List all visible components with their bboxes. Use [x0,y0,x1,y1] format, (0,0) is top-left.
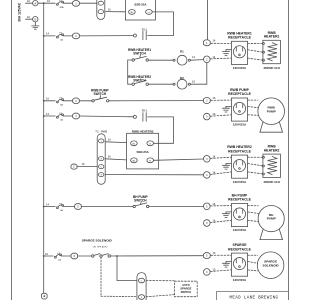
pin 6 [71,253,78,259]
wire fuse F1 to pin 1 [63,2,72,4]
node bus bottom terminal [41,293,47,299]
ground at J4 BH PUMP RECEPTACLE [222,212,231,218]
fuse F2 2A [57,33,64,42]
wire pin 6 to switch S5 [78,255,92,257]
terminal G [33,17,38,22]
wire node 6c to sparge receptacle (dashed) [210,270,231,272]
svg-text:SPARGE SOLENOID: SPARGE SOLENOID [82,239,113,243]
wire node 2 to heater1 receptacle (dashed) [210,57,231,60]
pin 1 [73,1,80,7]
ground at J3 RWB HEATER2 RECEPTACLE [222,164,231,170]
svg-text:120V/15A: 120V/15A [233,66,247,70]
ground symbol below terminal G [32,22,39,29]
wire switch S1 to relay coil R1 [148,59,173,61]
svg-text:120V/15A: 120V/15A [233,228,247,232]
wire relay R2 up to node 2, gauge 16 [191,63,207,85]
svg-text:SOLENOID: SOLENOID [263,263,280,267]
relay coil R2 [173,76,190,89]
wire bus to fuse F2, gauge 14 [44,32,56,36]
svg-text:A: A [34,1,36,5]
wire pin 5 to switch S4 [81,206,133,208]
source label 30A 125VAC [17,2,21,22]
svg-text:RECEPTACLE: RECEPTACLE [228,247,251,251]
wire node 5c to sparge receptacle (dashed) [211,254,232,256]
wire source to terminal A, gauge 10 [26,0,33,3]
wire SSR U2 T1 to node 3c [154,159,204,160]
wire bh receptacle to motor (dashed x3) [248,206,259,222]
fuse F4 2A [57,113,64,122]
pin 5 [75,204,82,210]
wire branch down to terminal strip TB2 pin 1 [117,256,137,281]
fuse F5 5A [57,203,64,212]
relay coil R1 [173,50,190,66]
pin C [71,164,77,169]
junction dots on bus and branches [43,2,118,257]
wire TC-RWB pin 8 to SSR U2 M2, gauge 16 [105,154,126,160]
wire pump receptacle to motor (dashed x3) [248,100,258,115]
title block [217,292,289,300]
svg-text:HEATER1: HEATER1 [264,35,280,39]
pin 3 [73,98,80,104]
svg-text:RECEPTACLE: RECEPTACLE [228,149,251,153]
pin 2 [73,33,80,39]
svg-text:R1: R1 [180,50,184,54]
wire pin 3 to switch S3 [79,100,92,102]
svg-text:AUTO: AUTO [102,245,108,248]
wire row1 from terminal A to fuse F1, gauge 16 [38,0,55,3]
wire source to terminal G, gauge 10 [26,15,33,19]
terminal A [33,1,38,6]
receptacle J4 BH PUMP RECEPTACLE [228,194,251,233]
svg-text:PUMP: PUMP [267,217,276,221]
svg-text:120V/15A: 120V/15A [233,123,247,127]
receptacle J2 RWB PUMP RECEPTACLE [228,88,251,127]
svg-text:30A: 30A [60,6,64,9]
receptacle J5 SPARGE RECEPTACLE [228,243,251,282]
border frame left line [11,0,13,300]
wire pin C to TC-RWB, gauge 16 [77,162,97,166]
node 3 [204,154,216,162]
wire node 3c to heater2 receptacle (dashed) [210,157,231,158]
wire fuse F3 to pin 3 [63,100,72,102]
resistor RWB HEATER1 [262,31,280,70]
terminal strip TB2 [137,273,146,300]
wire node 6b to bh receptacle (dashed) [210,220,231,222]
relay U2 SSR-25A [127,129,159,169]
svg-text:TC - RWB: TC - RWB [95,129,107,133]
svg-text:SWITCH: SWITCH [94,92,107,96]
wire switch S5 to node 5c [110,255,203,257]
svg-text:C: C [73,166,75,169]
node 5 [204,202,216,210]
relay U1 SSR-25A [125,0,155,20]
wire fuse F5 to pin 5 [63,206,74,208]
wire node 1 to heater1 receptacle (dashed) [211,42,232,44]
svg-text:SWITCH: SWITCH [134,199,147,203]
wire contact R1-1 to pin 2 [79,35,133,37]
node 4 [204,171,216,179]
motor M1 RWB PUMP [258,98,285,132]
switch S3 RWB PUMP SWITCH [91,89,110,103]
wire pin 2 to fuse F2 [63,35,72,37]
wire TB2 pin 2 to auto sparge switch (dashed) [146,295,174,297]
wire bus to fuse F4, gauge 14 [44,112,56,116]
node 6 [204,219,216,227]
wire pin 1 to terminal strip TB1 [79,2,96,4]
svg-text:125VAC: 125VAC [17,2,21,15]
switch S6 AUTO SPARGE SWITCH (remote, dashed box) [175,281,198,297]
svg-text:4500W ULO: 4500W ULO [263,180,280,184]
switch S2 RWB HEATER2 SWITCH [128,75,151,85]
ground at J5 SPARGE RECEPTACLE [222,262,231,268]
svg-text:RECEPTACLE: RECEPTACLE [228,36,251,40]
wire TB2 pin 1 to auto sparge switch (dashed) [146,280,174,282]
wire from SSR U1 output into node 1 [206,0,208,40]
svg-text:120V/15A: 120V/15A [233,180,247,184]
svg-text:AUTO: AUTO [182,283,190,287]
node 1 [203,38,215,45]
node 6 [204,268,216,276]
switch S5 sparge solenoid selector ON OFF AUTO [82,239,113,258]
svg-text:RWB HEATER2: RWB HEATER2 [132,129,154,133]
terminal strip TB1 [97,0,105,20]
svg-text:PUMP: PUMP [267,109,276,113]
wire relay R1 to node 2, gauge 14 [191,55,204,60]
node 2 [203,96,215,103]
border frame right line [288,0,290,300]
node 2 [204,55,216,63]
receptacle J1 RWB HEATER1 RECEPTACLE [227,31,252,70]
svg-text:RECEPTACLE: RECEPTACLE [228,198,251,202]
svg-text:SWITCH: SWITCH [181,290,192,294]
wire node 4b to heater2 receptacle (dashed) [210,172,231,175]
ground at J2 RWB PUMP RECEPTACLE [222,106,231,112]
contact R2-1 [133,109,147,122]
switch S4 BH PUMP SWITCH [133,195,149,208]
svg-text:SSR-25A: SSR-25A [136,150,149,154]
motor K1 SPARGE SOLENOID [257,252,284,279]
wire fuse F4 to pin 4 [63,115,72,117]
fuse F3 5A [57,98,64,107]
wire node 2b to pump receptacle (dashed) [211,99,232,101]
wire node 5b to bh receptacle (dashed) [210,205,231,207]
svg-text:R1-1: R1-1 [142,27,148,31]
wire heater2 receptacle to heater2 (dashed x3) [248,157,263,174]
wire joining switch S1 and S2 left posts [128,60,132,84]
svg-text:MEAD LANE BREWING: MEAD LANE BREWING [230,296,279,300]
fuse F6 2A [55,253,62,262]
wire node 3b to pump receptacle (dashed) [210,115,231,116]
ground at J1 RWB HEATER1 RECEPTACLE [222,50,231,56]
pin 4 [73,113,80,119]
wire switch S2 to relay coil R2 [148,83,173,85]
switch S1 RWB HEATER1 SWITCH [128,48,151,61]
receptacle J3 RWB HEATER2 RECEPTACLE [227,145,252,184]
wire switch S3 to node 2b [109,100,203,102]
wire hot bus vertical [43,3,45,293]
wire pin 4 to contact R2-1 [79,115,133,118]
wire TC-RWB pin 9 to node 4b [105,174,203,176]
wire TB1 to SSR U1 pin M2, gauge 16 [105,7,125,11]
svg-text:R2-1: R2-1 [142,109,148,113]
svg-text:HEATER2: HEATER2 [264,148,280,152]
svg-text:4500W ULO: 4500W ULO [263,66,280,70]
terminal strip TC-RWB [95,129,107,184]
svg-text:SSR-25A: SSR-25A [134,2,147,6]
wire sparge receptacle to solenoid (dashed x3) [248,255,258,271]
wire OFF position linkage (dashed) to TB2 pin 2 [101,257,137,296]
fuse F1 30A [57,0,64,9]
resistor RWB HEATER2 [262,145,280,184]
motor M2 BH PUMP [258,206,284,240]
svg-text:RECEPTACLE: RECEPTACLE [228,92,251,96]
wire heater1 receptacle to heater1 (dashed x3) [248,43,263,60]
wire bus to fuse F6, gauge 16 [44,252,54,256]
svg-text:120V/15A: 120V/15A [233,278,247,282]
node 5 [203,251,215,258]
wire fuse F6 to pin 6 [61,255,71,257]
wire switch S4 to node 5b [149,205,203,207]
wire SSR U1 L1 output down to contact R1-1 [148,12,174,36]
node 3 [204,112,216,120]
wire TC-RWB pin 7 to SSR U2 M1, gauge 16 [105,138,126,143]
wire bus to fuse F3, gauge 16 [44,97,56,101]
wire contact R2-1 to SSR U2 pin L1 [148,117,174,143]
svg-text:SWITCH: SWITCH [133,51,146,55]
svg-text:30A: 30A [17,15,21,22]
wire bus to fuse F5, gauge 14 [44,202,56,206]
contact R1-1 [133,27,147,40]
svg-text:SPARGE: SPARGE [180,287,191,291]
